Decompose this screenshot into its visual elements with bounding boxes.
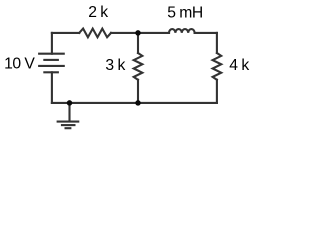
junction dot ground node	[67, 100, 73, 106]
wire top-left horizontal from battery corner to R1	[52, 32, 79, 34]
svg-text:4 k: 4 k	[229, 57, 249, 74]
wire left side top plate to top wire	[51, 33, 53, 54]
resistor 2 k (horizontal zigzag)	[79, 29, 111, 38]
ground stem	[68, 103, 70, 121]
ground bar 3	[65, 127, 72, 129]
svg-text:2 k: 2 k	[88, 4, 108, 21]
svg-text:10 V: 10 V	[4, 55, 35, 72]
junction dot node bottom middle	[135, 100, 141, 106]
wire right side down to 4k	[216, 33, 218, 53]
battery V1 short plate upper	[43, 59, 59, 61]
battery V1 short plate bottom	[43, 71, 59, 73]
ground bar 1	[57, 121, 80, 123]
resistor 3 k (vertical zigzag)	[134, 53, 143, 80]
wire from inductor to top-right corner	[195, 32, 217, 34]
svg-text:5 mH: 5 mH	[167, 4, 203, 21]
inductor 5 mH (4 humps)	[169, 29, 195, 33]
junction dot node top middle	[135, 30, 141, 36]
battery V1 long plate top	[38, 53, 65, 55]
wire middle branch top stub	[137, 33, 139, 53]
battery V1 long plate lower	[38, 65, 65, 67]
wire left side battery bottom to bottom wire	[51, 72, 53, 103]
svg-text:3 k: 3 k	[105, 57, 125, 74]
ground bar 2	[61, 124, 76, 126]
resistor 4 k (vertical zigzag)	[213, 53, 222, 80]
wire right side below 4k to bottom-right corner	[216, 80, 218, 103]
wire from R1 to inductor	[111, 32, 169, 34]
wire bottom horizontal	[52, 102, 217, 104]
wire middle branch bottom stub	[137, 80, 139, 103]
